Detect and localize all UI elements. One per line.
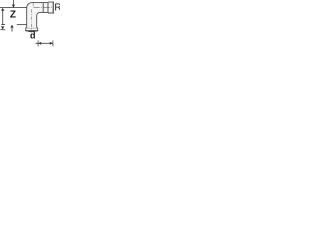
collar line on horizontal leg	[42, 3, 44, 13]
Z dimension inner line (x~2.7)	[1, 8, 4, 11]
horizontal centerline (axis) solid left part	[0, 7, 27, 9]
background	[0, 0, 60, 50]
bend tangent mark	[32, 3, 34, 7]
svg-text:Z: Z	[10, 10, 16, 21]
vertical centerline dash-dot of lower leg	[31, 9, 33, 32]
thread inner line	[52, 2, 54, 13]
d dimension bar	[28, 31, 35, 33]
thread start line	[47, 2, 49, 13]
elbow fitting body fill	[26, 2, 54, 31]
extension line at pipe stop level	[17, 24, 27, 26]
svg-text:R: R	[54, 3, 60, 14]
right edge of vertical leg	[36, 15, 38, 27]
Z dimension outer arrows (x~13)	[12, 0, 14, 5]
elbow outline: outer corner curve	[27, 3, 33, 9]
bottom dimension	[37, 40, 39, 46]
svg-text:d: d	[30, 31, 36, 41]
bottom edge of horizontal leg	[40, 11, 48, 13]
thread end cap	[48, 2, 54, 13]
inner corner fillet	[37, 12, 40, 15]
press socket bead at bottom	[26, 28, 38, 31]
horizontal centerline dash-dot inside fitting	[33, 7, 53, 9]
top edge of horizontal leg	[33, 2, 48, 4]
left edge of vertical leg	[26, 8, 28, 27]
